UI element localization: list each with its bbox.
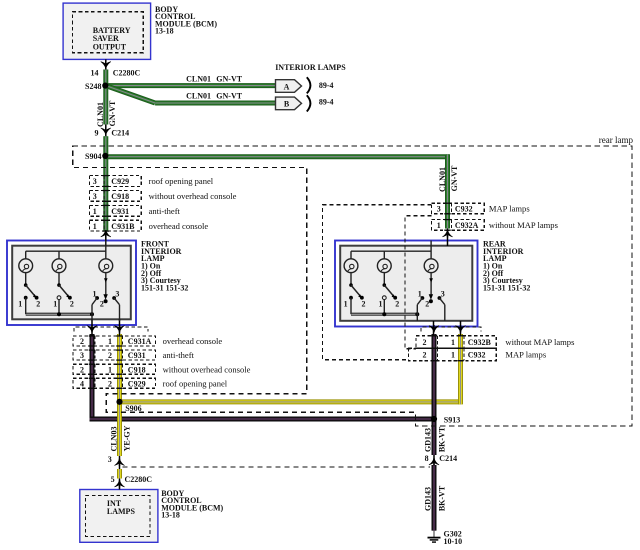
svg-text:3: 3 — [80, 351, 84, 360]
svg-text:GN-VT: GN-VT — [450, 165, 459, 191]
svg-text:2: 2 — [108, 379, 112, 388]
svg-text:1: 1 — [108, 365, 112, 374]
svg-text:151-31 151-32: 151-31 151-32 — [483, 283, 530, 292]
svg-text:2: 2 — [108, 351, 112, 360]
svg-text:C214: C214 — [111, 129, 129, 138]
svg-text:14: 14 — [91, 69, 99, 78]
svg-text:3: 3 — [441, 290, 445, 299]
svg-text:CLN01: CLN01 — [186, 92, 211, 101]
svg-text:GD143: GD143 — [423, 428, 432, 452]
svg-text:1: 1 — [93, 207, 97, 216]
svg-text:1: 1 — [108, 337, 112, 346]
svg-text:C918: C918 — [111, 192, 129, 201]
svg-text:1: 1 — [451, 351, 455, 360]
svg-text:4: 4 — [80, 379, 84, 388]
svg-text:2: 2 — [100, 299, 104, 308]
svg-text:C929: C929 — [128, 379, 146, 388]
svg-text:anti-theft: anti-theft — [163, 350, 195, 360]
svg-text:CLN01: CLN01 — [438, 167, 447, 192]
svg-text:1: 1 — [451, 338, 455, 347]
svg-text:13-18: 13-18 — [161, 511, 180, 520]
svg-text:INTERIOR LAMPS: INTERIOR LAMPS — [275, 63, 346, 72]
svg-text:GN-VT: GN-VT — [216, 74, 242, 83]
svg-text:C2280C: C2280C — [113, 69, 141, 78]
svg-text:S904: S904 — [85, 152, 101, 161]
svg-text:3: 3 — [108, 455, 112, 464]
svg-text:8: 8 — [425, 454, 429, 463]
svg-text:CLN01: CLN01 — [186, 74, 211, 83]
svg-text:2: 2 — [423, 338, 427, 347]
svg-text:10-10: 10-10 — [444, 537, 463, 546]
svg-text:B: B — [284, 100, 290, 109]
svg-text:without overhead console: without overhead console — [163, 364, 251, 374]
svg-text:roof opening panel: roof opening panel — [163, 378, 228, 388]
svg-text:3: 3 — [93, 192, 97, 201]
svg-text:C931A: C931A — [128, 337, 152, 346]
svg-text:1: 1 — [344, 300, 348, 309]
svg-text:BK-VT: BK-VT — [437, 426, 446, 452]
svg-text:5: 5 — [111, 475, 115, 484]
svg-text:1: 1 — [437, 221, 441, 230]
svg-text:without MAP lamps: without MAP lamps — [505, 337, 575, 347]
svg-text:rear lamp: rear lamp — [599, 135, 634, 145]
svg-text:1: 1 — [93, 222, 97, 231]
svg-text:C214: C214 — [439, 454, 457, 463]
svg-text:2: 2 — [362, 300, 366, 309]
svg-text:C932: C932 — [455, 205, 473, 214]
svg-text:roof opening panel: roof opening panel — [149, 176, 214, 186]
svg-text:1: 1 — [53, 300, 57, 309]
svg-text:2: 2 — [70, 300, 74, 309]
svg-text:2: 2 — [80, 337, 84, 346]
svg-text:C932: C932 — [468, 351, 486, 360]
svg-text:3: 3 — [437, 205, 441, 214]
svg-text:MAP lamps: MAP lamps — [505, 350, 546, 360]
svg-text:89-4: 89-4 — [319, 81, 334, 90]
svg-text:9: 9 — [95, 129, 99, 138]
svg-text:CLN03: CLN03 — [109, 427, 118, 452]
svg-text:without overhead console: without overhead console — [149, 191, 237, 201]
svg-text:S906: S906 — [125, 404, 141, 413]
svg-text:3: 3 — [93, 177, 97, 186]
svg-text:2: 2 — [423, 351, 427, 360]
svg-text:OUTPUT: OUTPUT — [93, 43, 127, 52]
svg-text:2: 2 — [80, 365, 84, 374]
svg-text:YE-GY: YE-GY — [122, 425, 131, 451]
svg-text:2: 2 — [395, 300, 399, 309]
svg-text:C931: C931 — [111, 207, 129, 216]
svg-text:C929: C929 — [111, 177, 129, 186]
svg-text:C918: C918 — [128, 365, 146, 374]
svg-text:anti-theft: anti-theft — [149, 206, 181, 216]
svg-text:C932A: C932A — [455, 221, 479, 230]
svg-text:A: A — [284, 82, 290, 91]
svg-text:BK-VT: BK-VT — [437, 485, 446, 511]
svg-text:1: 1 — [93, 290, 97, 299]
svg-text:CLN01: CLN01 — [96, 102, 105, 127]
svg-text:GN-VT: GN-VT — [216, 92, 242, 101]
svg-text:overhead console: overhead console — [149, 221, 209, 231]
svg-text:151-31 151-32: 151-31 151-32 — [141, 283, 188, 292]
svg-text:S913: S913 — [444, 416, 460, 425]
svg-text:without MAP lamps: without MAP lamps — [489, 220, 559, 230]
svg-text:13-18: 13-18 — [155, 27, 174, 36]
svg-text:3: 3 — [115, 290, 119, 299]
svg-text:2: 2 — [425, 299, 429, 308]
svg-text:S248: S248 — [85, 82, 101, 91]
svg-text:C931: C931 — [128, 351, 146, 360]
svg-text:C2280C: C2280C — [125, 475, 153, 484]
svg-text:GN-VT: GN-VT — [108, 100, 117, 126]
svg-text:C932B: C932B — [468, 338, 492, 347]
svg-text:1: 1 — [18, 300, 22, 309]
svg-text:LAMPS: LAMPS — [107, 507, 136, 516]
svg-text:1: 1 — [418, 290, 422, 299]
svg-text:overhead console: overhead console — [163, 336, 223, 346]
svg-text:2: 2 — [36, 300, 40, 309]
svg-text:89-4: 89-4 — [319, 98, 334, 107]
svg-text:1: 1 — [379, 300, 383, 309]
svg-text:C931B: C931B — [111, 222, 135, 231]
svg-text:GD143: GD143 — [423, 487, 432, 511]
svg-text:MAP lamps: MAP lamps — [489, 204, 530, 214]
